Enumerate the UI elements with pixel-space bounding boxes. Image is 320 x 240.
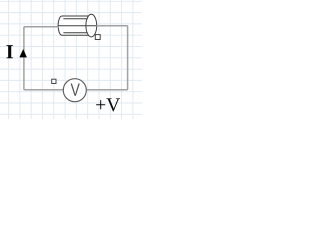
voltmeter V label: [71, 83, 80, 95]
wire: axis line through cylinder U1: [58, 25, 96, 27]
current direction arrow: [19, 49, 27, 57]
voltmeter M1: [63, 79, 86, 102]
terminal square on cylinder: [95, 35, 100, 40]
wire: right + bottom-right segment: [86, 26, 128, 90]
cylinder conductor U1 (outline): [58, 14, 97, 37]
label +V (voltage): [96, 98, 120, 111]
cylinder conductor U1 (body fill): [58, 14, 97, 37]
label I (current): [6, 45, 12, 58]
terminal square at voltmeter: [52, 79, 56, 83]
wire: left + bottom-left segment: [24, 27, 64, 90]
